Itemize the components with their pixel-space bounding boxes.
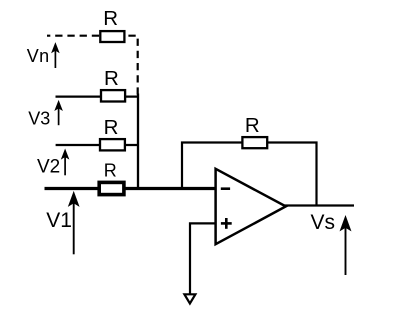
svg-text:R: R [104, 161, 117, 181]
resistor R (V1 branch) [99, 182, 124, 194]
ground (open arrow) [184, 294, 195, 303]
svg-text:R: R [104, 67, 119, 90]
resistor R (feedback) [242, 137, 267, 148]
wire non-inverting input to ground [190, 223, 216, 294]
resistor R (V3 branch) [101, 90, 125, 101]
pin minus (inverting) [221, 187, 230, 190]
pin plus (non-inverting) [221, 218, 232, 229]
wire V1 input to op-amp inverting input [45, 187, 216, 190]
wire feedback loop [182, 143, 317, 206]
resistor R (V2 branch) [100, 139, 125, 150]
svg-text:R: R [103, 7, 118, 30]
wire V2 input to bus [56, 144, 139, 146]
wire V3 input to bus [56, 95, 139, 97]
svg-text:V2: V2 [37, 157, 60, 178]
svg-text:V3: V3 [28, 108, 50, 128]
svg-text:R: R [245, 114, 260, 137]
svg-text:V1: V1 [46, 209, 72, 232]
svg-text:Vs: Vs [311, 211, 336, 234]
arrow V2 source [61, 149, 68, 175]
wire summing bus vertical [137, 94, 139, 190]
arrow Vn source [52, 43, 59, 68]
svg-text:R: R [104, 116, 119, 139]
op-amp U1 [216, 169, 286, 244]
wire output [285, 204, 355, 206]
svg-text:Vn: Vn [27, 46, 50, 66]
resistor R (Vn branch) [100, 31, 124, 42]
wire dashed Vn input with corner to bus [47, 36, 138, 95]
arrow V1 source [68, 192, 79, 255]
arrow V3 source [55, 101, 62, 126]
arrow Vs output [340, 216, 351, 275]
